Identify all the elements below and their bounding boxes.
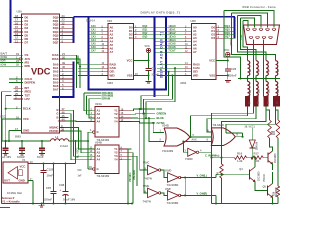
wire Y1 elbow to RED row — [132, 109, 156, 111]
wire DCLK down — [5, 109, 7, 115]
V1 pin 14 stub — [28, 163, 33, 165]
wire MS to buf2 A1 — [64, 128, 95, 150]
VDC pin G stub — [60, 113, 67, 115]
VDC pin /RAS stub — [60, 58, 65, 60]
wire Q4 emitter to Q5 base — [255, 182, 268, 191]
svg-text:/DRAM: /DRAM — [102, 97, 111, 101]
svg-text:GREEN: GREEN — [157, 112, 167, 116]
junction diode node — [251, 157, 253, 159]
svg-text:R17: R17 — [254, 152, 260, 156]
resistor R6 vertical — [220, 164, 224, 178]
U26 pin D1 stub — [216, 30, 223, 32]
resistor R20 vertical — [276, 120, 280, 138]
wire CA1 to U23 — [89, 30, 100, 32]
VDC pin D0 stub — [13, 17, 23, 19]
wire RED down to inverter U5C — [140, 109, 148, 170]
VDC pin DISPEN stub — [9, 82, 23, 84]
svg-text:DQ2: DQ2 — [143, 33, 148, 35]
VDC pin /RES stub — [13, 91, 23, 93]
svg-text:VSS: VSS — [209, 73, 215, 77]
svg-text:220nF: 220nF — [44, 198, 52, 202]
junction link top — [184, 176, 186, 178]
junction Q4 collector R17 — [254, 157, 256, 159]
svg-text:C A0-14: C A0-14 — [86, 19, 95, 22]
U26 pin A4 stub — [184, 41, 192, 43]
wire R23 staircase left — [222, 106, 267, 158]
wire CA5 to U23 — [89, 44, 100, 46]
V1 pin 7 stub — [28, 180, 33, 182]
svg-text:CA2: CA2 — [91, 32, 96, 35]
transistor Q5 collector — [268, 183, 273, 187]
wire I pin to buf1 A4 — [66, 120, 95, 123]
wire C122 down to rail — [43, 173, 45, 204]
wire vcc rail y163.5 — [33, 163, 76, 165]
wire connector feed down 4 — [232, 13, 276, 61]
wire V_ON2 down column — [215, 195, 217, 203]
U23 pin A6 stub — [101, 48, 109, 50]
VDC pin DQ4 stub — [60, 31, 74, 33]
U23 pin D0 stub — [134, 27, 142, 29]
wire CAS link vertical — [77, 55, 79, 63]
junction coil mid rail — [246, 77, 248, 79]
VDC pin DA5 stub — [60, 82, 74, 84]
wire R6 bottom to rail — [221, 178, 223, 204]
wire CAS elbow down — [64, 55, 77, 88]
ground below C23 — [146, 81, 152, 83]
svg-text:10nF: 10nF — [37, 155, 44, 159]
wire TST down left edge — [6, 95, 12, 141]
wire gate2 output — [235, 136, 242, 138]
wire DQ3 to bus — [141, 37, 155, 39]
connector pin top 4 — [266, 29, 270, 31]
wire link b — [144, 75, 173, 113]
svg-text:38_VCC1: 38_VCC1 — [245, 126, 256, 129]
wire GND down — [8, 131, 10, 142]
svg-text:VCC: VCC — [23, 117, 29, 121]
or-gate U22B body — [211, 128, 235, 146]
wire R17 to Q3 base — [263, 157, 268, 159]
U23 pin A5 stub — [101, 44, 109, 46]
VDC pin I stub — [60, 120, 67, 122]
wire C87 stub — [53, 164, 55, 191]
coil mid wire 2 — [255, 76, 257, 82]
wire link c — [146, 68, 175, 118]
U21A pin Y3 stub — [119, 117, 132, 119]
buffer U21B body — [95, 145, 119, 174]
wire G1 from left — [88, 131, 93, 133]
VDC pin DQ3 stub — [60, 27, 74, 29]
svg-text:2SC1815: 2SC1815 — [275, 153, 277, 163]
wire Y2 elbow to GREEN row — [132, 113, 156, 116]
connector pin top 1 — [246, 29, 250, 31]
wire buf2 Y3 down — [132, 156, 138, 186]
svg-text:VCC: VCC — [224, 48, 230, 52]
wire V1 pin7 down to rail — [32, 181, 34, 204]
VDC pin CCLK stub — [9, 78, 23, 80]
oscillator V1 body — [3, 162, 28, 183]
wire BLUE into gate2 — [183, 141, 212, 143]
capacitor C3 stub bottom — [41, 150, 43, 152]
svg-text:2.2uH: 2.2uH — [60, 144, 68, 148]
U23 pin OE\ stub — [101, 71, 109, 73]
transistor Q4 collector — [250, 167, 256, 171]
svg-text:BL_VCC1: BL_VCC1 — [78, 147, 80, 158]
wire to connector top pin 3 — [238, 16, 262, 28]
svg-text:4464: 4464 — [107, 81, 113, 85]
resistor R17 — [251, 156, 263, 160]
junction link c top — [174, 67, 176, 69]
oscillator V1 triangle — [8, 167, 18, 180]
U23 pin RAS\ stub — [101, 64, 109, 66]
capacitor C1 stub top — [5, 141, 7, 148]
svg-text:1.2k: 1.2k — [237, 159, 243, 163]
wire buf1 A2 feed — [87, 96, 96, 115]
transistor Q4 base bar — [249, 169, 251, 179]
junction link a row — [140, 108, 142, 110]
VDC pin VCC stub — [2, 118, 22, 120]
svg-text:DQ3: DQ3 — [143, 37, 148, 39]
U26 pin D0 stub — [216, 27, 223, 29]
svg-text:DQ0: DQ0 — [143, 26, 148, 28]
wire connector bottom pin down b — [263, 40, 265, 97]
VDC pin DA1 stub — [60, 67, 74, 69]
svg-text:1uF 16V: 1uF 16V — [1, 155, 12, 159]
U21B pin Y3 stub — [119, 155, 132, 157]
VDC pin DA7 stub — [60, 89, 74, 91]
bus riser DQ pins VDC — [73, 17, 75, 43]
wire diode to R16 node — [251, 148, 253, 158]
wire R19 to Q3 collector — [270, 138, 273, 151]
U26 pin WE\ stub — [184, 74, 192, 76]
junction RED — [139, 108, 141, 110]
svg-text:DQ1: DQ1 — [143, 30, 148, 32]
svg-text:VSYNC1: VSYNC1 — [129, 172, 132, 182]
transistor Q5 emitter arrow — [271, 196, 273, 198]
svg-text:4464: 4464 — [180, 81, 187, 85]
svg-text:10uF 16V: 10uF 16V — [63, 198, 75, 202]
wire connector pin down to C_IN column — [212, 97, 254, 153]
junction coil mid rail — [274, 77, 276, 79]
U26 pin D2 stub — [216, 34, 223, 36]
wire U5C out to U5D in — [160, 170, 168, 178]
VDC pin R stub — [60, 109, 67, 111]
wire C87 down — [53, 194, 55, 204]
capacitor C23 — [146, 68, 152, 70]
wire G pin to buf2 A4 — [66, 114, 95, 160]
svg-text:7407N: 7407N — [143, 199, 151, 203]
resistor R25 box — [278, 97, 282, 107]
inverter U5F body — [168, 191, 179, 200]
svg-text:44: 44 — [62, 118, 66, 122]
junction BLUE tap — [182, 140, 184, 142]
svg-text:A4: A4 — [97, 158, 101, 162]
U21A pin Y4 stub — [119, 121, 132, 123]
U26 pin A0 stub — [184, 27, 192, 29]
wire Y3 elbow to BLUE row — [132, 117, 156, 119]
junction GREEN — [143, 113, 145, 115]
connector pin bottom 9 — [269, 37, 273, 39]
bus DATA left vertical — [10, 0, 12, 43]
wire R24 staircase left — [226, 106, 276, 133]
wire DQ4 to bus — [223, 27, 235, 29]
svg-text:IOW: IOW — [1, 62, 7, 66]
wire to U26 RAS\ — [157, 64, 184, 66]
svg-text:74LS32N: 74LS32N — [162, 149, 173, 153]
wire to connector top pin 1 — [243, 21, 248, 28]
connector CN3 body — [244, 25, 280, 45]
bus horizontal DA y89.5 — [88, 89, 167, 91]
junction RAS link — [79, 65, 81, 67]
wire gate1 output to gate2 — [190, 136, 211, 138]
U23 pin A4 stub — [101, 41, 109, 43]
or-gate U22A body — [164, 128, 190, 146]
svg-text:10nF: 10nF — [47, 173, 54, 177]
inverter U5D body — [168, 173, 179, 182]
capacitor C3 body — [39, 147, 45, 149]
connector pin top 3 — [259, 29, 263, 31]
wire buf1 A3 feed — [89, 99, 95, 118]
connector pin bottom 8 — [262, 37, 266, 39]
svg-text:WE\: WE\ — [110, 73, 116, 77]
svg-text:VSS: VSS — [127, 73, 133, 77]
wire gate2 out vertical — [242, 133, 244, 137]
svg-text:C_IN(4MHz): C_IN(4MHz) — [205, 153, 220, 157]
svg-text:220nF: 220nF — [229, 73, 237, 77]
wire R24 feed — [276, 106, 279, 120]
wire vcc rail y141 — [2, 140, 51, 142]
svg-text:A4: A4 — [97, 119, 101, 123]
ground below C3 — [39, 152, 45, 154]
wire /RES down left edge — [2, 92, 12, 204]
wire link a — [141, 72, 169, 109]
wire CA3 to U23 — [89, 37, 100, 39]
svg-text:14: 14 — [30, 160, 34, 164]
coil bottom wire 4 — [275, 95, 277, 97]
wire DRAM label row — [89, 98, 101, 100]
ground below C2 — [19, 152, 25, 154]
junction gate2 out — [241, 136, 243, 138]
wire L4 right — [69, 140, 89, 142]
svg-text:C98: C98 — [59, 183, 65, 187]
DRAM U23 body — [108, 24, 134, 80]
svg-text:DISPLAY DATA DQ[0..7]: DISPLAY DATA DQ[0..7] — [141, 10, 181, 14]
coil bottom wire 2 — [255, 95, 257, 97]
wire RAS elbow down — [64, 59, 80, 88]
U23 VCC wire — [134, 60, 149, 62]
wire connector feed down 1 — [243, 21, 248, 61]
U21B G bubble — [93, 168, 95, 170]
svg-text:74LS244N: 74LS244N — [97, 174, 110, 178]
wire GREEN down to inverter U5E — [144, 114, 148, 193]
junction feed5 rail — [239, 77, 241, 79]
svg-text:V_ON(L): V_ON(L) — [197, 174, 208, 178]
svg-text:74LS32N: 74LS32N — [213, 123, 224, 127]
coil mid wire 4 — [275, 76, 277, 82]
svg-text:G: G — [97, 167, 99, 171]
wire Q5 collector up — [272, 172, 274, 183]
wire CA4 to U26 — [156, 41, 185, 43]
svg-text:DA7: DA7 — [53, 88, 59, 92]
svg-text:VCC: VCC — [0, 114, 6, 118]
bus vertical DA pins VDC — [73, 62, 75, 98]
U26 pin D3 stub — [216, 37, 223, 39]
junction G column rail — [87, 140, 89, 142]
wire R pin to buf2 A3 — [66, 110, 95, 156]
wire buf2 Y2 down — [132, 153, 134, 204]
bus riser U26 DQ pins — [234, 17, 236, 39]
U23 pin A0 stub — [101, 27, 109, 29]
wire SYNC down to gate1 in1 — [153, 123, 164, 133]
svg-text:LP2: LP2 — [25, 97, 31, 101]
junction L4 G column — [74, 140, 76, 142]
bus vertical x88 — [88, 17, 90, 90]
svg-text:C23: C23 — [152, 67, 157, 71]
svg-text:Y4: Y4 — [114, 119, 118, 123]
gnd rail between coils — [238, 78, 280, 80]
svg-text:R20: R20 — [274, 130, 276, 135]
transistor Q3 emitter — [268, 161, 273, 165]
VDC pin D7 stub — [13, 42, 23, 44]
wire vcc riser right — [75, 141, 77, 164]
ground on rail — [39, 205, 45, 207]
wire to connector top pin 5 — [224, 11, 274, 28]
svg-text:16 MHz Xtal: 16 MHz Xtal — [7, 191, 22, 195]
VDC IC U20 body — [22, 14, 60, 133]
U21B pin Y2 stub — [119, 152, 132, 154]
svg-text:C122: C122 — [47, 167, 54, 171]
svg-text:C1F: C1F — [78, 170, 83, 172]
svg-text:DQ7: DQ7 — [224, 35, 230, 39]
svg-text:VCC: VCC — [127, 58, 133, 62]
junction link a top — [167, 71, 169, 73]
svg-text:DCLK: DCLK — [23, 107, 31, 111]
resistor R16 — [235, 156, 247, 160]
capacitor C1 body — [3, 147, 9, 149]
U26 pin CAS\ stub — [184, 67, 192, 69]
wire VS to buf2 A2 — [64, 131, 95, 153]
wire CA1 to U26 — [156, 30, 185, 32]
U26 pin RAS\ stub — [184, 64, 192, 66]
resistor R23 box — [264, 97, 268, 107]
svg-text:DQ7: DQ7 — [53, 41, 59, 45]
wire C98 stub — [65, 164, 67, 192]
svg-text:74LS06N: 74LS06N — [167, 201, 179, 205]
wire VCC down — [1, 119, 3, 141]
junction TST column DCLK — [5, 108, 7, 110]
inductor L7 upper coil — [266, 61, 268, 76]
svg-text:CA4: CA4 — [91, 39, 96, 42]
svg-text:U5/F: U5/F — [165, 187, 171, 191]
bus vertical x164 — [165, 17, 167, 90]
inductor L12 lower coil — [276, 81, 278, 96]
junction BLUE — [148, 117, 150, 119]
VDC pin DQ7 stub — [60, 42, 74, 44]
junction Y1 rail — [127, 202, 129, 204]
VDC pin VSYNC stub — [60, 130, 65, 132]
wire R6 top — [221, 158, 223, 164]
wire U5D out V_ON — [180, 177, 216, 179]
VDC pin D1 stub — [13, 20, 23, 22]
wire U5B out — [199, 152, 212, 157]
wire to U23 OE\ — [78, 71, 101, 73]
capacitor C3 stub top — [41, 141, 43, 148]
vertical link inverter outputs — [184, 178, 186, 196]
wire VCC to C26 — [227, 57, 229, 69]
wire RAS link vertical — [79, 59, 81, 67]
junction link b top — [171, 74, 173, 76]
wire V_ON to Q4 base — [216, 173, 250, 175]
VDC pin DQ0 stub — [60, 17, 74, 19]
wire connector feed down 2 — [241, 18, 257, 61]
svg-text:2SC1815: 2SC1815 — [258, 171, 260, 181]
wire R21 staircase to mini buffer — [191, 106, 248, 137]
wire CA2 to U23 — [89, 34, 100, 36]
capacitor C87 — [51, 190, 57, 192]
wire DQ2 to bus — [141, 34, 155, 36]
junction C3 rail — [41, 140, 43, 142]
junction link bottom — [184, 194, 186, 196]
wire CA7 to U23 — [89, 51, 100, 53]
inductor L8 upper coil — [276, 61, 278, 76]
svg-text:L4: L4 — [55, 135, 59, 139]
U23 pin A3 stub — [101, 37, 109, 39]
svg-text:CA3: CA3 — [91, 36, 96, 39]
capacitor C26 — [225, 68, 231, 70]
junction C87 top — [52, 162, 54, 164]
VCC symbol U26 — [226, 52, 230, 56]
U26 pin A1 stub — [184, 30, 192, 32]
U23 pin WE\ stub — [101, 74, 109, 76]
bottom right rail — [212, 203, 279, 205]
transistor Q4 emitter — [250, 177, 256, 181]
svg-text:Y1 + Kristalle: Y1 + Kristalle — [2, 200, 20, 204]
VDC pin DA3 stub — [60, 74, 74, 76]
wire R16 R17 — [247, 157, 252, 159]
bus DISPLAY DATA top horizontal — [74, 16, 236, 18]
wire Q5 emitter to rail — [272, 197, 274, 203]
resistor R19 vertical — [268, 120, 272, 138]
junction C98 rail — [64, 202, 66, 204]
svg-text:U24D: U24D — [162, 124, 169, 128]
U23 pin A2 stub — [101, 34, 109, 36]
U21B pin Y4 stub — [119, 159, 132, 161]
wire G2 from left — [88, 168, 93, 170]
VDC pin JCS bubble — [19, 58, 21, 60]
wire VSS U26 to gnd — [216, 74, 228, 76]
svg-text:V5C/4C: V5C/4C — [263, 174, 266, 182]
svg-text:2SC1815: 2SC1815 — [276, 187, 278, 197]
junction R6 base wire — [220, 173, 222, 175]
wire to connector top pin 2 — [241, 18, 255, 28]
wire BLUE tap down to U5B — [183, 142, 187, 153]
wire V_ON row link — [215, 174, 217, 177]
wire C26 to gnd — [227, 71, 229, 80]
VDC pin D5 stub — [13, 35, 23, 37]
svg-text:CA0: CA0 — [91, 25, 96, 28]
wire to U23 RAS\ — [78, 64, 101, 66]
svg-text:8563: 8563 — [15, 135, 21, 139]
svg-text:R/W: R/W — [25, 64, 31, 68]
svg-text:A7: A7 — [193, 50, 197, 54]
oscillator V1 crystal — [19, 170, 22, 176]
junction gate1 out w1 — [189, 136, 191, 138]
junction link c row — [145, 117, 147, 119]
wire buf1 A1 feed — [84, 93, 95, 111]
wire Q4 collector up — [254, 158, 256, 167]
VDC pin DCLK stub — [6, 108, 22, 110]
junction C2 rail — [21, 140, 23, 142]
svg-text:R16: R16 — [237, 152, 243, 156]
